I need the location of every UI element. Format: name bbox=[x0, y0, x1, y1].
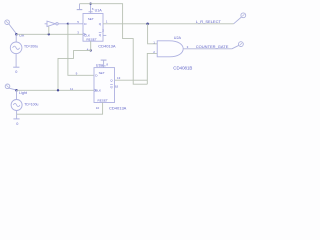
svg-text:COUNTER_GATE: COUNTER_GATE bbox=[196, 44, 229, 49]
U1B Qbar overbar bbox=[110, 84, 113, 86]
off-page connector COUNTER_GATE bbox=[232, 42, 243, 49]
AND gate U2A bbox=[157, 41, 183, 57]
wire U1B Q to gate bbox=[115, 79, 148, 81]
svg-text:0: 0 bbox=[15, 70, 17, 74]
svg-text:L_R_SELECT: L_R_SELECT bbox=[196, 19, 222, 24]
wire V2 top bbox=[16, 90, 18, 99]
U1B internal labels bbox=[95, 71, 113, 103]
svg-text:10: 10 bbox=[96, 106, 100, 110]
junction dot D net bbox=[67, 23, 69, 25]
svg-text:SET: SET bbox=[88, 17, 94, 21]
svg-text:11: 11 bbox=[70, 87, 73, 91]
wire HI to Q column bbox=[80, 4, 148, 85]
svg-text:CD4013A: CD4013A bbox=[98, 44, 116, 49]
wire V1 bottom bbox=[15, 54, 17, 67]
wire U1A RESET staircase bbox=[58, 41, 91, 90]
svg-text:CD4013A: CD4013A bbox=[109, 105, 127, 110]
U1B Qbar stub bbox=[115, 86, 119, 88]
junction dot Q net bbox=[146, 23, 149, 26]
off-page connector L_R_SELECT bbox=[234, 13, 246, 24]
flip-flop U1B bbox=[94, 66, 115, 103]
svg-text:TD=100u: TD=100u bbox=[24, 102, 38, 106]
voltage marker M1 bbox=[5, 20, 17, 34]
inverter gate bbox=[45, 21, 59, 26]
flip-flop U1A bbox=[83, 12, 103, 41]
U1A Qbar stub bbox=[103, 34, 106, 36]
voltage marker M2 bbox=[5, 84, 16, 90]
wire gate output bbox=[183, 48, 232, 50]
wire gate input 2 bbox=[147, 53, 157, 84]
wire Q net L_R_SELECT bbox=[103, 23, 234, 25]
ground 0 (V2) bbox=[13, 118, 19, 120]
svg-text:CLK: CLK bbox=[95, 89, 102, 93]
svg-text:CD4081B: CD4081B bbox=[173, 66, 192, 71]
wire D of U1A bbox=[68, 23, 83, 25]
wire V1 top bbox=[15, 34, 17, 42]
HI bar (U1B SET net) bbox=[101, 60, 107, 68]
svg-text:U2A: U2A bbox=[174, 36, 182, 40]
U1B pin numbers bbox=[70, 63, 121, 110]
HI bar (U1A SET net) bbox=[77, 4, 83, 10]
svg-text:RESET: RESET bbox=[98, 99, 108, 103]
node Light dot bbox=[15, 89, 18, 92]
svg-text:12: 12 bbox=[115, 84, 119, 88]
svg-text:U1B: U1B bbox=[96, 63, 104, 67]
ground 0 (V1) bbox=[13, 66, 19, 68]
junction dot staircase-light bbox=[57, 89, 59, 91]
svg-text:RESET: RESET bbox=[86, 37, 96, 41]
wire U1B RESET to ground bbox=[17, 103, 103, 115]
U1A internal labels bbox=[84, 17, 102, 41]
wire clk run bbox=[16, 33, 83, 35]
wire V2 bottom bbox=[16, 111, 18, 119]
U2A pin numbers bbox=[153, 41, 188, 54]
junction dot U1A RESET corner bbox=[90, 49, 92, 51]
source V2 bbox=[11, 100, 22, 111]
svg-text:SET: SET bbox=[99, 71, 105, 75]
wire inverter riser bbox=[48, 26, 50, 34]
U1A pin numbers bbox=[77, 7, 108, 51]
junction dot inverter tap bbox=[48, 33, 50, 35]
wire gate input 1 bbox=[148, 24, 158, 44]
svg-text:Light: Light bbox=[19, 91, 27, 95]
svg-text:13: 13 bbox=[117, 76, 121, 80]
wire down to U1B D bbox=[68, 24, 94, 76]
source V1 bbox=[10, 42, 22, 54]
U1A SET pin bbox=[90, 4, 92, 14]
wire light run bbox=[17, 89, 95, 91]
node Clk dot bbox=[15, 33, 18, 36]
wire inverter out bbox=[58, 23, 68, 25]
junction dot SET bbox=[89, 3, 91, 5]
U1A Qbar overbar bbox=[99, 32, 102, 34]
svg-text:TD=200u: TD=200u bbox=[24, 45, 38, 49]
svg-text:0: 0 bbox=[16, 122, 18, 126]
svg-text:U1A: U1A bbox=[95, 8, 103, 12]
